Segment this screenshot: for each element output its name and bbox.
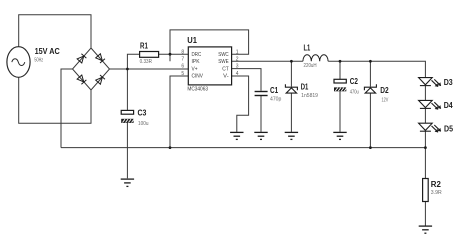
LED D5 (419, 123, 441, 132)
svg-text:L1: L1 (304, 43, 311, 53)
svg-text:C3: C3 (138, 108, 147, 118)
svg-text:15V AC: 15V AC (35, 46, 60, 56)
ground (U1 pin 4) (230, 132, 243, 139)
inductor L1 220uH (303, 55, 328, 62)
wire D2 top (369, 61, 371, 86)
wire pin 2 SWE to L1 (232, 60, 303, 62)
svg-text:V+: V+ (192, 66, 198, 72)
bridge rectifier diamond (73, 48, 110, 90)
ground (R2) (419, 226, 432, 233)
capacitor C2 470u (334, 76, 359, 96)
wire DRC loop to pin 1 SWC (170, 30, 249, 61)
svg-text:V-: V- (223, 74, 229, 80)
svg-text:SWC: SWC (218, 52, 229, 58)
wire top rail (19, 15, 91, 48)
node LED/R2 rail junction (424, 146, 427, 149)
ground (C3) (121, 179, 134, 186)
svg-text:220uH: 220uH (304, 63, 317, 69)
wire bridge left vertex to ground rail (61, 69, 73, 148)
svg-text:470p: 470p (270, 96, 282, 102)
svg-text:MC34063: MC34063 (187, 87, 208, 93)
wire D5 to ground rail (424, 131, 426, 147)
svg-text:CINV: CINV (192, 74, 204, 80)
svg-text:4: 4 (236, 71, 239, 77)
node C2 junction (339, 60, 342, 63)
wire D4 to D5 (424, 108, 426, 123)
node D1/SWE junction (290, 60, 293, 63)
wire D1 top (290, 61, 292, 86)
LED D4 (419, 100, 441, 109)
capacitor C1 470p (255, 92, 268, 96)
resistor R1 0.33R (140, 40, 159, 65)
svg-text:470u: 470u (350, 90, 359, 96)
svg-text:1n5819: 1n5819 (301, 93, 318, 99)
wire node VIN down to C3 (126, 69, 128, 110)
capacitor C3 100u (121, 108, 149, 127)
zener diode D2 12V (364, 84, 376, 93)
ground (D1) (285, 132, 298, 139)
svg-text:C2: C2 (350, 76, 358, 86)
svg-text:U1: U1 (187, 35, 197, 45)
svg-text:50Hz: 50Hz (34, 57, 43, 63)
svg-text:3: 3 (236, 64, 239, 70)
bridge diode top-right (96, 54, 105, 63)
svg-text:R2: R2 (431, 179, 441, 189)
svg-text:8: 8 (181, 49, 184, 55)
wire AC source bottom to bridge bottom vertex (19, 77, 91, 123)
wire bottom ground rail (61, 147, 425, 149)
wire D2 bottom to ground rail (369, 93, 371, 148)
svg-text:D1: D1 (301, 81, 309, 91)
wire node VIN up to R1 left (127, 54, 139, 69)
wire R1 right to pin 8 DRC (159, 53, 189, 55)
svg-text:3.9R: 3.9R (431, 190, 442, 196)
svg-text:R1: R1 (140, 40, 148, 50)
AC source V1 15V AC 50Hz (7, 47, 30, 78)
svg-text:1: 1 (236, 49, 239, 55)
svg-text:D5: D5 (444, 124, 453, 134)
svg-text:D4: D4 (444, 100, 453, 110)
wire C2 bottom to ground (339, 91, 341, 132)
node VIN junction (126, 68, 129, 71)
node D2 junction (369, 60, 372, 63)
svg-text:0.33R: 0.33R (140, 59, 153, 65)
wire R2 bottom to ground (424, 202, 426, 226)
svg-text:SWE: SWE (218, 59, 229, 65)
node D2/rail junction (369, 146, 372, 149)
node CINV/rail junction (169, 146, 172, 149)
svg-text:5: 5 (181, 71, 184, 77)
op-amp U1 MC34063 (181, 35, 238, 93)
svg-text:DRC: DRC (192, 52, 202, 58)
bridge diode top-left (77, 54, 86, 63)
wire ground rail to R2 (424, 148, 426, 179)
wire C3 bottom to ground (126, 123, 128, 178)
wire D3 to D4 (424, 86, 426, 101)
wire L1 right to LED column (328, 61, 425, 77)
wire bridge right vertex to node VIN (110, 68, 189, 70)
svg-text:CT: CT (222, 66, 229, 72)
bridge diode bottom-left (77, 75, 86, 84)
LED D3 (419, 78, 441, 87)
svg-text:IPK: IPK (192, 59, 201, 65)
svg-text:6: 6 (181, 64, 184, 70)
wire C2 top (339, 61, 341, 79)
ground (C1) (254, 132, 267, 139)
svg-text:D3: D3 (444, 77, 453, 87)
ground (C2) (333, 132, 346, 139)
svg-text:100u: 100u (138, 121, 149, 127)
node R1/DRC junction (169, 53, 172, 56)
diode D1 1n5819 (schottky) (285, 84, 297, 93)
svg-text:C1: C1 (270, 85, 278, 95)
wire pin 5 CINV to ground rail (170, 76, 188, 148)
svg-text:D2: D2 (380, 85, 389, 95)
wire pin 4 V- to ground (232, 76, 249, 132)
wire D1 bottom to ground (290, 93, 292, 132)
resistor R2 3.9R (423, 179, 443, 202)
wire C1 bottom to ground (260, 96, 262, 132)
wire pin 3 CT to C1 (232, 69, 261, 91)
svg-text:7: 7 (181, 56, 184, 62)
svg-text:12V: 12V (382, 97, 389, 103)
bridge diode bottom-right (96, 75, 105, 84)
svg-text:2: 2 (236, 56, 239, 62)
